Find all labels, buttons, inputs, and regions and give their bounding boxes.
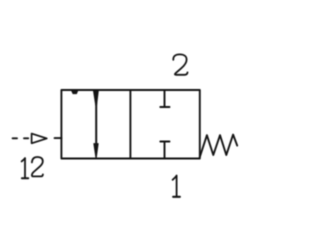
valve body outer box — [61, 90, 199, 159]
flow arrow head bottom — [94, 144, 98, 158]
flow arrow head top — [93, 90, 98, 105]
pilot port label 12 : digit 2 — [32, 157, 43, 176]
position divider wire — [129, 90, 131, 159]
return spring — [200, 135, 237, 157]
pilot dashed wire segment 1 — [13, 137, 17, 139]
port label 2 — [173, 54, 187, 74]
pilot port label 12 : digit 1 — [22, 158, 29, 178]
pilot wire to body — [55, 137, 62, 139]
flow arrow shaft (left position) — [95, 98, 97, 146]
blocked port 2 stub (right position top) — [164, 90, 166, 107]
blocked port 2 seat — [160, 106, 169, 108]
port label 1 — [173, 176, 180, 197]
notch mark on top edge — [71, 90, 78, 94]
pilot dashed wire segment 2 — [24, 137, 28, 139]
pilot pressure triangle — [32, 134, 47, 144]
blocked port 1 seat — [160, 141, 169, 143]
blocked port 1 stub (right position bottom) — [164, 142, 166, 159]
